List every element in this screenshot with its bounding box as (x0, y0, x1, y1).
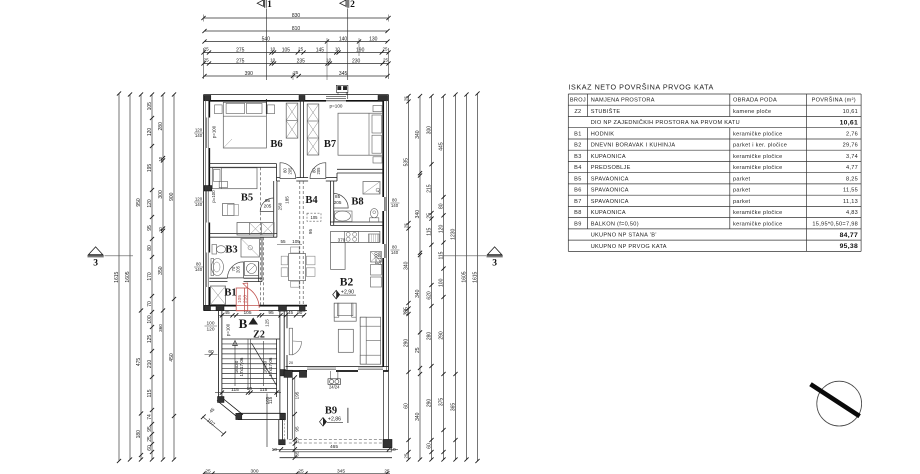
level marker +2,90 (333, 290, 340, 299)
level marker +2,86 (320, 418, 327, 427)
dimension line 1605 (left) (129, 95, 131, 460)
svg-text:parket: parket (733, 176, 750, 182)
svg-text:830: 830 (292, 13, 301, 19)
svg-text:B4: B4 (574, 165, 581, 171)
svg-text:parket: parket (733, 188, 750, 194)
svg-text:Z2: Z2 (574, 109, 581, 115)
dimension chain (right) (443, 96, 445, 460)
svg-text:280: 280 (158, 122, 164, 131)
wall below B1 (south wall of flat, with entry door opening) (204, 310, 237, 312)
svg-text:p=100: p=100 (211, 190, 216, 203)
column (south wall right / Z2-B2 corner) (279, 305, 287, 311)
svg-text:1615: 1615 (114, 271, 120, 282)
table grid (568, 93, 861, 95)
svg-text:365: 365 (451, 403, 457, 412)
svg-text:UKUPNO NP STANA ’B’: UKUPNO NP STANA ’B’ (591, 233, 657, 239)
balcony bottom-left column (279, 440, 286, 445)
svg-text:25: 25 (404, 96, 409, 101)
svg-text:STUBIŠTE: STUBIŠTE (591, 108, 621, 115)
dimension chain (right) (431, 96, 433, 460)
stove (4 burners) (345, 231, 359, 242)
svg-text:25: 25 (298, 468, 304, 474)
dim ladder verticals at row ends (203, 48, 205, 79)
svg-text:105: 105 (311, 215, 319, 220)
column (south wall far left) (204, 305, 210, 310)
washbasin B8 (335, 211, 351, 221)
svg-text:290: 290 (404, 339, 410, 348)
dimension line 1615 (right) (477, 94, 479, 462)
diagonal dimension 107 (203, 417, 224, 435)
svg-text:190: 190 (356, 47, 365, 53)
svg-text:10: 10 (158, 227, 163, 232)
section marker 1 (257, 0, 272, 10)
svg-text:POVRŠINA (m²): POVRŠINA (m²) (812, 97, 856, 104)
svg-text:340: 340 (415, 130, 421, 139)
dimension line 540/140/130 (205, 41, 388, 43)
svg-text:120: 120 (147, 128, 153, 137)
section marker 3 (right) (487, 247, 503, 269)
balcony left dim chain 195/95/25/65 (294, 377, 296, 458)
svg-text:keramičke pločice: keramičke pločice (733, 165, 783, 171)
dimension line 900 (left) (173, 95, 175, 460)
column (left wall) (204, 186, 212, 192)
svg-text:25: 25 (204, 57, 210, 62)
outer wall (top) (204, 94, 389, 96)
svg-text:B: B (239, 316, 248, 331)
shower B3 (241, 239, 260, 258)
svg-text:120: 120 (439, 225, 445, 234)
svg-text:4,77: 4,77 (846, 165, 858, 171)
dimension line 810 (205, 30, 388, 32)
svg-text:B9: B9 (325, 406, 337, 417)
balcony bottom-right column (383, 439, 392, 447)
stairwell left wall (218, 311, 220, 400)
balcony right railing (383, 371, 385, 439)
dimension line 1605 (right) (466, 95, 468, 460)
svg-text:parket i ker. pločice: parket i ker. pločice (733, 143, 787, 149)
svg-text:370: 370 (338, 237, 346, 242)
balcony top-left column (284, 370, 292, 377)
svg-text:125: 125 (147, 335, 153, 344)
door B5 (arc) (260, 198, 274, 212)
svg-text:205: 205 (334, 200, 342, 205)
interior wall B8/B2 (horizontal) (330, 221, 383, 223)
svg-text:B7: B7 (324, 139, 336, 150)
svg-text:11,55: 11,55 (843, 188, 858, 194)
svg-text:375: 375 (439, 398, 445, 407)
stairs up-arrow (right flight) (263, 341, 265, 386)
svg-text:195: 195 (294, 391, 299, 399)
svg-text:1615: 1615 (473, 271, 479, 282)
svg-text:185: 185 (285, 196, 290, 204)
toilet B3 (212, 245, 217, 255)
svg-text:kamene ploče: kamene ploče (733, 109, 771, 115)
svg-text:195: 195 (147, 164, 153, 173)
svg-text:275: 275 (236, 58, 245, 64)
svg-text:85: 85 (335, 194, 341, 199)
svg-text:300: 300 (250, 468, 258, 474)
svg-text:115: 115 (231, 387, 239, 393)
desk+chair B5 (223, 204, 235, 216)
B2 south wall to balcony (with glass openings) (286, 366, 389, 368)
shower B8 (363, 182, 380, 195)
svg-text:10,61: 10,61 (843, 109, 859, 115)
section marker 2 (340, 0, 355, 10)
column (south wall left) (216, 305, 224, 310)
svg-text:BROJ: BROJ (570, 98, 586, 104)
door B3 (arc) (228, 262, 244, 278)
svg-text:140: 140 (391, 250, 399, 255)
svg-text:B3: B3 (225, 245, 237, 256)
svg-text:95,38: 95,38 (840, 243, 859, 250)
svg-text:60: 60 (404, 403, 410, 409)
svg-text:10: 10 (247, 386, 253, 392)
svg-text:230: 230 (352, 58, 361, 64)
svg-text:950: 950 (136, 198, 142, 207)
kitchen island (331, 242, 346, 269)
door B8 (arc) (334, 194, 349, 209)
svg-text:10: 10 (390, 447, 396, 453)
svg-text:1: 1 (267, 0, 272, 10)
svg-text:120: 120 (195, 197, 203, 202)
svg-text:HODNIK: HODNIK (591, 131, 615, 137)
red entry door (B1) (236, 288, 248, 311)
svg-text:10: 10 (272, 447, 278, 453)
svg-text:keramičke pločice: keramičke pločice (733, 221, 783, 227)
svg-text:540: 540 (262, 36, 271, 42)
interior wall below B6 (B6/B5) (209, 163, 276, 165)
svg-text:340: 340 (415, 210, 421, 219)
nightstand B6 left (215, 105, 223, 114)
interior wall B5/B3 (horizontal) (209, 233, 277, 235)
column (chamfer top) (218, 397, 225, 403)
glass door/window (B2-balcony right) (358, 367, 383, 369)
door B7 (arc) (310, 163, 326, 179)
svg-text:60: 60 (147, 445, 153, 451)
svg-text:17x17,06: 17x17,06 (239, 357, 244, 376)
glass door/window (B2-balcony left) (307, 367, 336, 369)
corner column (top-right) (378, 95, 388, 100)
svg-text:115: 115 (439, 251, 445, 259)
section marker 3 (left) (88, 247, 104, 269)
svg-text:140: 140 (195, 267, 203, 272)
column (south wall, B2 side) (299, 305, 305, 311)
column (B2 south wall mid) (299, 370, 306, 377)
svg-text:B5: B5 (241, 193, 253, 204)
svg-text:105: 105 (147, 102, 153, 111)
svg-text:205: 205 (316, 167, 321, 175)
cabinets B2 right wall (371, 252, 382, 263)
svg-text:620: 620 (427, 291, 433, 300)
interior wall B4/B8 (vertical) (329, 181, 331, 225)
dimension line 275/235/230 (204, 63, 389, 65)
svg-text:20: 20 (289, 361, 293, 365)
washing machine B3 (245, 262, 259, 276)
svg-text:B2: B2 (574, 143, 581, 149)
svg-text:B6: B6 (270, 139, 282, 150)
svg-text:2,76: 2,76 (846, 131, 858, 137)
svg-text:BALKON (f=0,50): BALKON (f=0,50) (591, 221, 639, 227)
dimension line 1615 (left overall) (118, 94, 120, 462)
section line 3-3 left stub (105, 255, 134, 257)
svg-text:140: 140 (195, 202, 203, 207)
svg-text:130: 130 (369, 36, 378, 42)
dimension line 1230 (right) (455, 95, 457, 460)
interior wall B5/B4 (vertical) (273, 181, 275, 237)
svg-text:45: 45 (288, 310, 294, 315)
bed B7 (338, 113, 383, 155)
svg-text:145: 145 (316, 47, 325, 53)
svg-text:350: 350 (158, 266, 164, 275)
svg-text:UKUPNO NP PRVOG KATA: UKUPNO NP PRVOG KATA (591, 244, 667, 250)
corner column (top-left) (204, 95, 211, 100)
svg-text:345: 345 (337, 468, 345, 474)
svg-text:445: 445 (439, 142, 445, 151)
dimension line 830 (overall width) (204, 17, 389, 19)
svg-text:3: 3 (93, 259, 98, 269)
balcony left railing (286, 377, 288, 439)
dim 370 (kitchen) (331, 243, 380, 245)
svg-text:95: 95 (308, 229, 313, 235)
stair bottom dimension 115/10/115 (215, 392, 281, 394)
svg-text:105: 105 (237, 295, 243, 303)
armchair B2 (334, 303, 356, 321)
svg-text:PREDSOBLJE: PREDSOBLJE (591, 165, 631, 171)
svg-text:keramičke pločice: keramičke pločice (733, 154, 783, 160)
svg-text:3,74: 3,74 (846, 154, 858, 160)
svg-text:DNEVNI BORAVAK I KUHINJA: DNEVNI BORAVAK I KUHINJA (591, 143, 676, 149)
svg-text:100: 100 (439, 278, 445, 287)
kitchen counter B2 (331, 231, 380, 242)
section line 1-1 (vertical through dims) (265, 9, 267, 81)
svg-text:24/24: 24/24 (329, 384, 340, 389)
svg-text:250: 250 (278, 202, 283, 210)
svg-text:B8: B8 (574, 210, 581, 216)
svg-text:SPAVAONICA: SPAVAONICA (591, 199, 629, 205)
svg-text:95: 95 (147, 426, 153, 432)
window (right wall, B8) 80/140 (383, 197, 385, 211)
svg-text:900: 900 (169, 192, 175, 201)
balcony bottom rail (280, 451, 392, 453)
nightstand B7 top (373, 106, 382, 112)
balcony floor dashed edges (289, 438, 383, 440)
dimension line 390/25/345 (205, 75, 388, 77)
stairwell bottom wall (238, 412, 286, 414)
entry landing dimension 45/105/95 (219, 314, 306, 316)
svg-text:25: 25 (382, 46, 388, 51)
svg-text:80: 80 (147, 245, 153, 251)
svg-text:235: 235 (297, 58, 306, 64)
svg-text:115: 115 (427, 228, 433, 236)
corridor north wall pieces (B4 top) (277, 177, 281, 179)
svg-text:15,95*0,50=7,98: 15,95*0,50=7,98 (812, 221, 858, 227)
svg-text:NAMJENA PROSTORA: NAMJENA PROSTORA (591, 98, 655, 104)
stairs (Z2): treads (222, 338, 280, 340)
svg-text:810: 810 (292, 26, 301, 32)
svg-text:1605: 1605 (462, 271, 468, 282)
nightstand B6 right (267, 105, 274, 114)
svg-text:25: 25 (298, 46, 304, 51)
tick bar right of B9 (347, 408, 349, 423)
svg-text:140: 140 (195, 133, 203, 138)
column (top wall at B6/B7) (299, 95, 305, 100)
svg-text:450: 450 (169, 353, 175, 362)
svg-text:ISKAZ NETO POVRŠINA PRVOG KATA: ISKAZ NETO POVRŠINA PRVOG KATA (569, 82, 714, 91)
svg-text:100: 100 (147, 315, 153, 324)
svg-text:80: 80 (439, 203, 445, 209)
svg-text:74: 74 (147, 414, 153, 420)
svg-text:10: 10 (270, 57, 276, 62)
svg-text:210: 210 (147, 360, 153, 369)
svg-text:95: 95 (294, 426, 299, 432)
svg-text:95: 95 (147, 225, 153, 231)
svg-text:300: 300 (158, 190, 164, 199)
interior wall B3/B1 right (vertical) (261, 237, 263, 281)
center line below stairs (266, 394, 268, 448)
dining chairs (281, 256, 288, 265)
svg-text:16x30: 16x30 (234, 360, 239, 373)
interior wall B3/B1 (horizontal, with door) (209, 277, 227, 279)
svg-text:340: 340 (415, 412, 421, 421)
svg-text:280: 280 (427, 332, 433, 341)
dimension chain (left mid) (162, 95, 164, 460)
svg-text:25: 25 (204, 46, 210, 51)
svg-text:25: 25 (427, 213, 433, 219)
svg-text:60: 60 (427, 443, 433, 449)
stairwell right wall (276, 339, 278, 397)
svg-text:45: 45 (224, 310, 230, 316)
svg-text:84,77: 84,77 (840, 232, 859, 239)
svg-text:55: 55 (280, 239, 286, 244)
wall stub stair-to-balcony (278, 420, 280, 444)
svg-text:95: 95 (268, 310, 274, 316)
svg-text:80: 80 (392, 245, 397, 250)
svg-text:25: 25 (205, 468, 211, 474)
svg-text:25: 25 (404, 223, 409, 228)
survey tick on top wall (265, 99, 267, 114)
wardrobe B6 (286, 103, 298, 138)
svg-text:17x17,06: 17x17,06 (268, 357, 273, 376)
svg-text:10,61: 10,61 (840, 119, 859, 126)
section line 2-2 (vertical through dims) (347, 9, 349, 81)
dimension chain 340s (right) (419, 96, 421, 460)
corridor dashed projection lines (299, 181, 301, 305)
svg-text:10: 10 (335, 46, 341, 51)
svg-text:p=100: p=100 (226, 323, 231, 336)
outer wall (left) (203, 95, 205, 311)
column (stair right at balcony) (280, 370, 286, 376)
svg-text:105: 105 (282, 47, 291, 53)
interior wall below B7 (B7/B8) (337, 168, 383, 170)
svg-text:B6: B6 (574, 188, 581, 194)
svg-text:25: 25 (383, 57, 389, 62)
svg-text:80: 80 (196, 262, 201, 267)
svg-text:90: 90 (297, 310, 303, 315)
dim 60 (left of stairwell) (205, 354, 218, 356)
svg-text:205: 205 (264, 204, 272, 209)
dimension line 950/475/180 (left) (140, 95, 142, 460)
svg-text:70: 70 (147, 301, 153, 307)
bed B6 (223, 102, 266, 148)
coffee table B2 (338, 329, 353, 352)
washbasin B3 (212, 259, 224, 276)
svg-text:340: 340 (404, 261, 410, 270)
window (right wall, B2) 80/140 (383, 244, 385, 258)
svg-text:B5: B5 (574, 176, 581, 182)
svg-text:120: 120 (195, 128, 203, 133)
svg-text:95: 95 (265, 198, 271, 203)
dimension line 275/105/145/190 (204, 52, 389, 54)
svg-text:29,76: 29,76 (843, 143, 859, 149)
svg-text:80: 80 (392, 198, 397, 203)
svg-text:105: 105 (292, 239, 300, 244)
svg-text:275: 275 (236, 47, 245, 53)
bottom dimension line 25/300/25/345/25 (204, 473, 391, 474)
svg-text:360: 360 (158, 324, 163, 332)
svg-text:SPAVAONICA: SPAVAONICA (591, 176, 629, 182)
chimney symbol below wall (328, 379, 341, 385)
svg-text:KUPAONICA: KUPAONICA (591, 154, 626, 160)
svg-text:475: 475 (136, 358, 142, 367)
svg-text:OBRADA PODA: OBRADA PODA (733, 98, 777, 104)
svg-text:25: 25 (404, 453, 409, 458)
wall landing/B2 (283, 311, 285, 370)
svg-text:3: 3 (492, 259, 497, 269)
svg-text:10: 10 (270, 46, 276, 51)
column (stair bottom right) (280, 413, 286, 419)
door B6 (arc) (280, 163, 296, 179)
svg-text:25: 25 (293, 70, 299, 75)
window (left wall, B3) (206, 253, 208, 288)
section line 3-3 right stub (444, 255, 487, 257)
svg-text:140: 140 (339, 36, 348, 42)
wardrobe B5 (237, 223, 274, 236)
north arrow (circle with bar) (811, 381, 862, 426)
sofa B2 (360, 317, 380, 364)
chimney symbol (top wall) (336, 85, 348, 92)
svg-text:205: 205 (236, 265, 241, 273)
svg-text:+2,86: +2,86 (328, 417, 341, 423)
svg-text:10: 10 (158, 156, 163, 161)
balcony inner dimension 465 (273, 448, 398, 450)
svg-text:115: 115 (268, 396, 273, 404)
bed B5 (212, 168, 257, 189)
svg-text:140: 140 (391, 203, 399, 208)
svg-text:125: 125 (265, 319, 270, 327)
stairs stringer (middle) (247, 339, 249, 389)
svg-text:210: 210 (242, 295, 248, 303)
svg-text:p=100: p=100 (330, 104, 343, 109)
svg-text:SPAVAONICA: SPAVAONICA (591, 188, 629, 194)
svg-text:115: 115 (147, 389, 153, 397)
svg-text:25: 25 (147, 436, 153, 442)
svg-text:B2: B2 (340, 277, 354, 289)
svg-text:+2,90: +2,90 (341, 289, 354, 295)
closet B4 (307, 213, 321, 221)
svg-text:8,25: 8,25 (846, 176, 858, 182)
kitchen sink (369, 234, 380, 242)
svg-text:115: 115 (260, 387, 268, 393)
svg-text:290: 290 (427, 399, 433, 408)
svg-text:120: 120 (206, 327, 214, 333)
svg-text:KUPAONICA: KUPAONICA (591, 210, 626, 216)
svg-text:B8: B8 (351, 197, 363, 208)
svg-text:170: 170 (147, 272, 153, 281)
svg-text:290: 290 (439, 331, 445, 340)
nightstand B5 (219, 181, 227, 187)
svg-text:25: 25 (415, 347, 421, 353)
dimension chain (left inner) (151, 95, 153, 460)
